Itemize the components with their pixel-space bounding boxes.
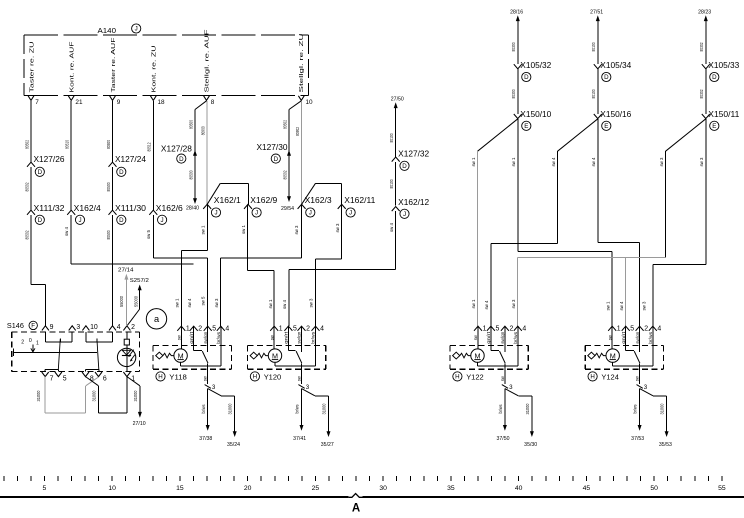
svg-text:sw: sw <box>203 376 208 382</box>
svg-text:D: D <box>119 217 124 224</box>
svg-text:3: 3 <box>509 384 513 391</box>
svg-text:35/24: 35/24 <box>227 442 240 448</box>
svg-text:sw 5: sw 5 <box>146 230 152 239</box>
svg-text:7: 7 <box>50 376 54 383</box>
svg-text:28/23: 28/23 <box>698 10 711 16</box>
svg-text:9: 9 <box>117 99 121 106</box>
svg-text:80510: 80510 <box>65 140 71 149</box>
svg-text:5: 5 <box>293 326 297 333</box>
svg-text:sw 4: sw 4 <box>619 301 625 310</box>
svg-text:80500: 80500 <box>106 182 112 191</box>
svg-text:E: E <box>524 123 528 130</box>
svg-text:X150/16: X150/16 <box>600 110 632 119</box>
svg-text:9: 9 <box>50 324 54 331</box>
svg-text:Y120: Y120 <box>264 372 282 381</box>
svg-text:Taster re. ZU: Taster re. ZU <box>29 42 35 93</box>
svg-text:sw 4: sw 4 <box>591 157 597 166</box>
svg-text:gn/rt: gn/rt <box>189 331 194 344</box>
svg-text:55000: 55000 <box>119 296 125 307</box>
svg-text:J: J <box>349 210 352 217</box>
svg-text:18: 18 <box>158 99 166 106</box>
svg-text:8: 8 <box>211 99 215 106</box>
svg-text:27/10: 27/10 <box>133 421 146 427</box>
svg-text:Y118: Y118 <box>169 372 187 381</box>
svg-text:5: 5 <box>63 376 67 383</box>
svg-text:31000: 31000 <box>133 390 139 401</box>
svg-text:2: 2 <box>644 326 648 333</box>
svg-text:D: D <box>119 169 124 176</box>
svg-text:3: 3 <box>76 324 80 331</box>
svg-text:X162/9: X162/9 <box>250 196 278 205</box>
svg-text:A: A <box>352 502 360 514</box>
svg-text:2: 2 <box>21 340 24 346</box>
svg-text:1: 1 <box>279 326 283 333</box>
svg-text:br/ws: br/ws <box>498 404 503 414</box>
svg-text:X127/24: X127/24 <box>115 155 147 164</box>
svg-text:sw 3: sw 3 <box>642 301 648 310</box>
svg-text:35: 35 <box>447 485 455 492</box>
svg-text:31000: 31000 <box>228 403 234 414</box>
svg-text:31000: 31000 <box>36 390 42 401</box>
svg-text:7: 7 <box>35 99 39 106</box>
svg-text:28/16: 28/16 <box>510 10 523 16</box>
svg-text:Stellgl. re. AUF: Stellgl. re. AUF <box>204 29 210 93</box>
svg-text:J: J <box>309 210 312 217</box>
svg-text:X105/34: X105/34 <box>600 61 632 70</box>
svg-text:Taster re. AUF: Taster re. AUF <box>111 37 117 93</box>
svg-text:1: 1 <box>617 326 621 333</box>
svg-text:D: D <box>402 163 407 170</box>
svg-text:80100: 80100 <box>591 42 597 51</box>
svg-text:sw 4: sw 4 <box>389 223 395 232</box>
svg-text:X127/28: X127/28 <box>161 144 193 153</box>
svg-text:H: H <box>590 374 594 381</box>
svg-text:A140: A140 <box>98 26 117 35</box>
svg-text:27/50: 27/50 <box>391 97 404 103</box>
svg-text:J: J <box>255 210 258 217</box>
svg-text:6: 6 <box>103 376 107 383</box>
svg-text:sw 4: sw 4 <box>282 300 288 309</box>
svg-text:80302: 80302 <box>699 89 705 98</box>
svg-text:X150/11: X150/11 <box>708 110 740 119</box>
svg-text:80500: 80500 <box>106 140 112 149</box>
svg-text:0: 0 <box>29 338 32 344</box>
svg-text:X150/10: X150/10 <box>520 110 552 119</box>
svg-text:D: D <box>179 156 184 163</box>
svg-text:sw 1: sw 1 <box>511 157 517 166</box>
svg-text:gn/rt: gn/rt <box>486 331 491 344</box>
svg-text:sw 4: sw 4 <box>187 298 193 307</box>
svg-text:80300: 80300 <box>511 89 517 98</box>
svg-text:2: 2 <box>198 326 202 333</box>
svg-text:sw: sw <box>473 335 478 341</box>
svg-text:35/27: 35/27 <box>321 442 334 448</box>
svg-text:sw: sw <box>269 335 274 341</box>
svg-text:15: 15 <box>176 485 184 492</box>
svg-text:Kont. re. AUF: Kont. re. AUF <box>70 41 76 93</box>
svg-text:20: 20 <box>244 485 252 492</box>
svg-text:31000: 31000 <box>321 403 327 414</box>
svg-text:3: 3 <box>212 384 216 391</box>
svg-text:4: 4 <box>522 326 526 333</box>
svg-text:X111/30: X111/30 <box>115 204 147 213</box>
svg-text:45: 45 <box>583 485 591 492</box>
svg-text:X127/26: X127/26 <box>34 155 66 164</box>
svg-text:sw 1: sw 1 <box>268 299 274 308</box>
svg-text:J: J <box>403 211 406 218</box>
svg-text:2: 2 <box>306 326 310 333</box>
svg-text:4: 4 <box>225 326 229 333</box>
svg-text:28/40: 28/40 <box>186 206 199 212</box>
svg-text:sw 1: sw 1 <box>471 157 477 166</box>
svg-text:D: D <box>38 217 43 224</box>
svg-text:4: 4 <box>117 324 121 331</box>
svg-text:80900: 80900 <box>200 126 206 135</box>
svg-text:sw: sw <box>500 376 505 382</box>
svg-text:35/53: 35/53 <box>659 442 672 448</box>
svg-text:sw 3: sw 3 <box>294 225 300 234</box>
svg-text:2: 2 <box>131 324 135 331</box>
svg-text:80502: 80502 <box>282 170 288 179</box>
svg-text:X105/33: X105/33 <box>708 61 740 70</box>
svg-text:80500: 80500 <box>188 120 194 129</box>
svg-text:H: H <box>455 374 459 381</box>
svg-text:M: M <box>178 351 184 360</box>
svg-text:X111/32: X111/32 <box>34 204 66 213</box>
svg-text:br/ws: br/ws <box>216 331 221 344</box>
svg-text:J: J <box>214 210 217 217</box>
svg-text:31000: 31000 <box>91 390 97 401</box>
svg-text:br/ws: br/ws <box>201 404 206 414</box>
svg-text:29/54: 29/54 <box>281 206 294 212</box>
svg-text:Y122: Y122 <box>466 372 484 381</box>
svg-text:gn/rt: gn/rt <box>621 331 626 344</box>
svg-text:S146: S146 <box>7 321 24 330</box>
svg-text:80500: 80500 <box>188 170 194 179</box>
svg-text:M: M <box>272 351 278 360</box>
svg-text:H: H <box>158 374 162 381</box>
svg-text:50: 50 <box>650 485 658 492</box>
svg-text:X162/6: X162/6 <box>156 204 184 213</box>
svg-text:4: 4 <box>657 326 661 333</box>
svg-text:37/38: 37/38 <box>199 436 212 442</box>
svg-text:80100: 80100 <box>591 89 597 98</box>
svg-text:5: 5 <box>630 326 634 333</box>
svg-text:sw: sw <box>635 376 640 382</box>
svg-text:M: M <box>475 351 481 360</box>
svg-text:D: D <box>604 74 609 81</box>
svg-text:X162/4: X162/4 <box>74 204 102 213</box>
svg-text:80502: 80502 <box>282 120 288 129</box>
svg-text:80100: 80100 <box>389 179 395 188</box>
svg-text:X127/30: X127/30 <box>257 143 289 152</box>
svg-text:80902: 80902 <box>295 127 301 136</box>
svg-text:sw 3: sw 3 <box>659 157 665 166</box>
svg-text:br/ws: br/ws <box>648 331 653 344</box>
svg-text:sw/gn: sw/gn <box>297 331 302 344</box>
svg-text:80502: 80502 <box>25 230 31 239</box>
svg-text:sw 1: sw 1 <box>175 298 181 307</box>
svg-text:80502: 80502 <box>25 140 31 149</box>
svg-text:80502: 80502 <box>25 182 31 191</box>
svg-text:sw/gn: sw/gn <box>500 331 505 344</box>
svg-text:J: J <box>161 217 164 224</box>
svg-text:M: M <box>610 351 616 360</box>
svg-text:S257/2: S257/2 <box>130 278 149 284</box>
svg-text:H: H <box>253 374 257 381</box>
svg-text:X127/32: X127/32 <box>398 149 430 158</box>
svg-text:sw 4: sw 4 <box>551 157 557 166</box>
svg-text:5: 5 <box>496 326 500 333</box>
svg-text:sw 1: sw 1 <box>241 225 247 234</box>
svg-text:55: 55 <box>718 485 726 492</box>
svg-text:sw: sw <box>607 335 612 341</box>
svg-text:27/51: 27/51 <box>590 10 603 16</box>
svg-text:sw 3: sw 3 <box>699 157 705 166</box>
svg-text:sw 1: sw 1 <box>471 299 477 308</box>
svg-text:Y124: Y124 <box>601 372 619 381</box>
svg-text:D: D <box>524 74 529 81</box>
svg-text:X162/1: X162/1 <box>214 196 242 205</box>
svg-text:10: 10 <box>306 99 314 106</box>
svg-text:3: 3 <box>306 384 310 391</box>
svg-text:sw 3: sw 3 <box>511 299 517 308</box>
svg-text:80300: 80300 <box>511 42 517 51</box>
svg-text:1: 1 <box>186 326 190 333</box>
svg-text:80500: 80500 <box>106 230 112 239</box>
svg-text:1: 1 <box>36 341 39 347</box>
svg-text:D: D <box>38 169 43 176</box>
svg-text:30: 30 <box>379 485 387 492</box>
svg-text:X105/32: X105/32 <box>520 61 552 70</box>
svg-text:3: 3 <box>644 384 648 391</box>
svg-text:br/ws: br/ws <box>633 404 638 414</box>
svg-text:gn/rt: gn/rt <box>284 331 289 344</box>
svg-text:1: 1 <box>483 326 487 333</box>
svg-text:sw 3: sw 3 <box>335 223 341 232</box>
svg-text:40: 40 <box>515 485 523 492</box>
svg-text:sw 4: sw 4 <box>484 300 490 309</box>
svg-text:X162/11: X162/11 <box>344 196 376 205</box>
svg-text:55000: 55000 <box>133 296 139 307</box>
svg-text:sw/gn: sw/gn <box>203 331 208 344</box>
svg-text:80302: 80302 <box>699 42 705 51</box>
svg-text:37/41: 37/41 <box>293 436 306 442</box>
svg-text:br/ws: br/ws <box>295 404 300 414</box>
svg-text:X162/3: X162/3 <box>305 196 333 205</box>
svg-text:E: E <box>712 123 716 130</box>
svg-text:2: 2 <box>510 326 514 333</box>
svg-text:sw 3: sw 3 <box>309 298 315 307</box>
svg-text:sw 4: sw 4 <box>64 227 70 236</box>
svg-text:80512: 80512 <box>147 142 153 151</box>
svg-text:sw: sw <box>297 376 302 382</box>
svg-text:a: a <box>154 314 160 324</box>
svg-text:sw 5: sw 5 <box>201 296 207 305</box>
svg-text:37/50: 37/50 <box>497 436 510 442</box>
svg-text:br/ws: br/ws <box>311 331 316 344</box>
svg-text:25: 25 <box>312 485 320 492</box>
svg-text:Kont. re. ZU: Kont. re. ZU <box>152 46 158 93</box>
svg-text:31000: 31000 <box>660 403 666 414</box>
svg-text:X162/12: X162/12 <box>398 198 430 207</box>
svg-text:21: 21 <box>75 99 83 106</box>
svg-text:27/14: 27/14 <box>118 267 134 273</box>
svg-text:D: D <box>712 74 717 81</box>
svg-text:10: 10 <box>108 485 116 492</box>
svg-text:J: J <box>135 26 138 33</box>
svg-text:Stellgl. re. ZU: Stellgl. re. ZU <box>299 34 305 93</box>
svg-text:5: 5 <box>212 326 216 333</box>
svg-text:sw: sw <box>177 335 182 341</box>
svg-text:10: 10 <box>90 324 98 331</box>
svg-text:5: 5 <box>43 485 47 492</box>
svg-text:sw/gn: sw/gn <box>635 331 640 344</box>
svg-text:sw 1: sw 1 <box>606 301 612 310</box>
svg-text:sw 1: sw 1 <box>200 225 206 234</box>
svg-text:80100: 80100 <box>389 133 395 142</box>
svg-text:E: E <box>604 123 608 130</box>
svg-text:sw 3: sw 3 <box>214 298 220 307</box>
svg-text:br/ws: br/ws <box>513 331 518 344</box>
svg-text:35/30: 35/30 <box>524 442 537 448</box>
svg-text:D: D <box>274 156 279 163</box>
svg-text:4: 4 <box>320 326 324 333</box>
svg-text:37/53: 37/53 <box>631 436 644 442</box>
svg-text:F: F <box>31 323 35 330</box>
svg-text:31000: 31000 <box>525 403 531 414</box>
svg-text:J: J <box>78 217 81 224</box>
